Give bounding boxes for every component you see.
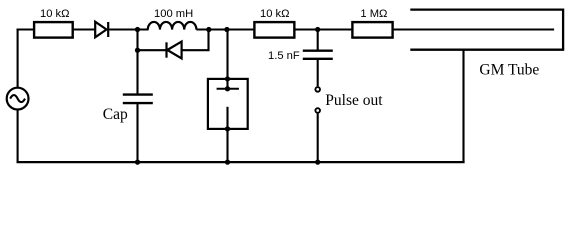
junction: node A top (left of inductor) <box>135 27 140 32</box>
wire: R3 to GM tube anode <box>393 28 554 30</box>
diode D1 (series, pointing right) <box>95 22 108 38</box>
wire: tube to bottom rail <box>226 129 228 163</box>
wire: riser from freewheel branch to node B <box>207 30 209 52</box>
diode D2 (freewheel, pointing left) <box>167 42 182 59</box>
wire: 1.5 nF cap to output terminal <box>317 59 319 86</box>
wire: node E down to 1.5 nF cap <box>317 30 319 51</box>
wire: node D to D2 cathode <box>138 49 167 51</box>
wire: R2 to R3 <box>294 28 352 30</box>
resistor 10 kOhm (input) <box>34 22 73 37</box>
wire: GM tube cathode to bottom rail <box>462 50 464 163</box>
wire: D2 anode to riser <box>182 49 210 51</box>
ac source V1 <box>7 88 29 110</box>
svg-text:Pulse out: Pulse out <box>325 92 383 109</box>
junction: node E (pulse output tap) <box>315 27 320 32</box>
wire: R1 to D1 <box>73 28 96 30</box>
resistor 1 MOhm <box>352 22 392 37</box>
junction: node C (tube branch tap) <box>224 27 229 32</box>
gas trigger tube envelope <box>208 79 248 129</box>
junction: tube top-wall crossing <box>225 76 230 81</box>
wire: left vertical from top rail to bottom rail <box>17 29 19 164</box>
junction: node B (freewheel diode return) <box>206 27 211 32</box>
svg-text:100 mH: 100 mH <box>154 8 193 20</box>
tube bottom electrode <box>226 107 228 129</box>
wire: node D down to Cap <box>136 50 138 95</box>
resistor 10 kOhm (coupling) <box>254 22 294 37</box>
svg-text:1 MΩ: 1 MΩ <box>360 8 387 20</box>
terminal: pulse out upper <box>315 87 320 92</box>
capacitor Cap <box>123 95 153 104</box>
wire: D1 to inductor <box>108 28 148 30</box>
wire: top rail, source to R1 <box>17 28 36 30</box>
wire: bottom rail <box>17 161 465 163</box>
junction: bottom rail at pulse-out branch <box>315 159 320 164</box>
junction: bottom rail at Cap branch <box>135 159 140 164</box>
tube top electrode plate <box>217 88 239 90</box>
junction: bottom rail at tube branch <box>225 159 230 164</box>
svg-text:1.5 nF: 1.5 nF <box>268 50 300 62</box>
wire: lower terminal to bottom rail <box>317 114 319 163</box>
junction: tube bottom-wall crossing <box>225 126 230 131</box>
junction: node D (cap / freewheel branch) <box>135 48 140 53</box>
junction: top electrode joint <box>225 86 230 91</box>
inductor 100 mH <box>148 22 197 30</box>
svg-text:10 kΩ: 10 kΩ <box>40 8 70 20</box>
wire: node A down to node D <box>136 30 138 52</box>
capacitor 1.5 nF <box>303 51 333 59</box>
terminal: pulse out lower <box>315 108 320 113</box>
svg-text:Cap: Cap <box>103 106 128 123</box>
wire: inductor to R2 <box>196 28 255 30</box>
svg-text:GM Tube: GM Tube <box>479 62 539 79</box>
wire: Cap to bottom rail <box>136 103 138 163</box>
svg-text:10 kΩ: 10 kΩ <box>260 8 290 20</box>
GM tube body <box>410 10 563 50</box>
wire: node C down into tube <box>226 30 228 89</box>
